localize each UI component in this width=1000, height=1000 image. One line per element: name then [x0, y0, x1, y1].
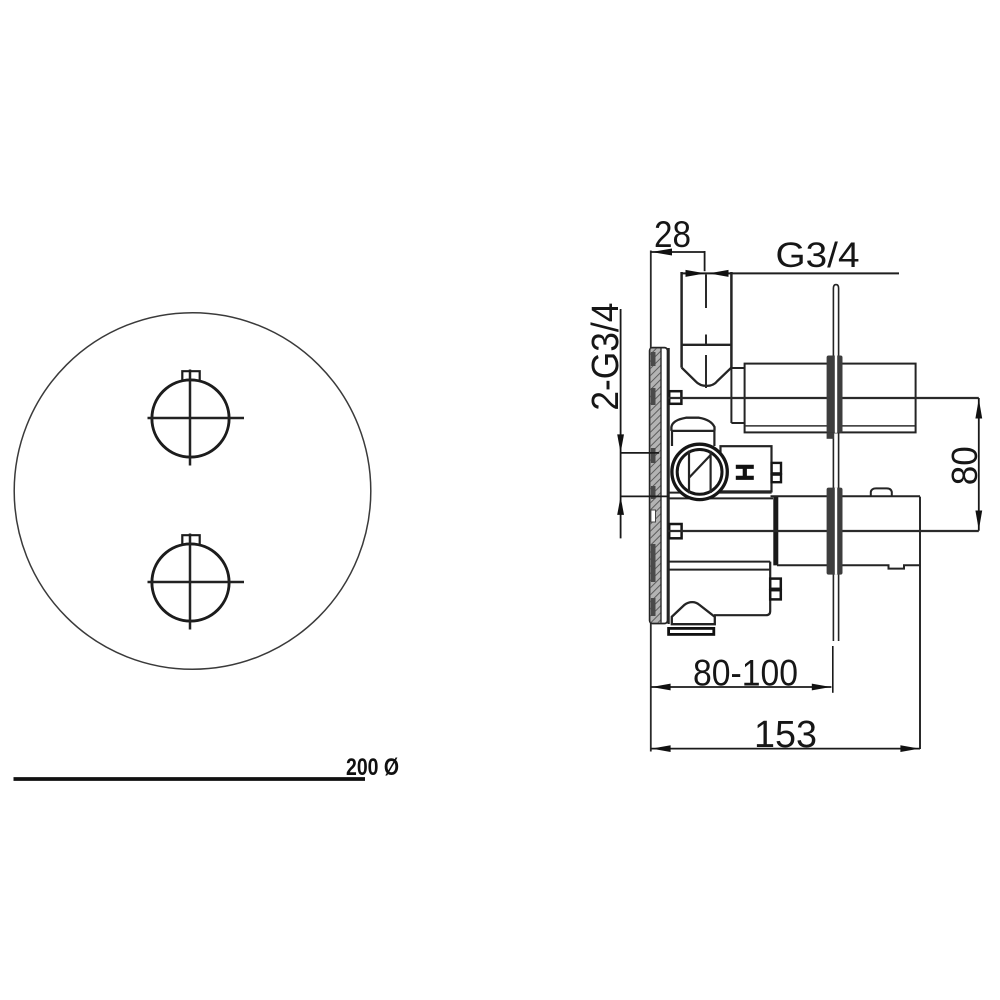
- bottom outlet cap: [672, 602, 715, 624]
- svg-text:200 Ø: 200 Ø: [346, 754, 399, 781]
- svg-text:153: 153: [754, 714, 817, 756]
- svg-text:2-G3/4: 2-G3/4: [585, 303, 627, 411]
- solenoid box: [721, 446, 772, 491]
- top knob index tab: [182, 371, 199, 381]
- svg-text:28: 28: [654, 214, 691, 255]
- dimension 153: [651, 745, 920, 752]
- label 200 dia: [346, 754, 399, 781]
- 2-G3/4 text: [585, 303, 627, 411]
- lower right block: [771, 488, 921, 749]
- bottom knob circle: [152, 544, 229, 621]
- H symbol: [736, 467, 754, 478]
- mid body lower lines: [669, 493, 773, 499]
- bottom knob crosshair: [148, 534, 245, 630]
- mounting plate: [650, 348, 668, 624]
- dimension 80: [975, 398, 982, 531]
- 153 text: [754, 714, 817, 756]
- diameter reference line 200: [14, 777, 366, 781]
- inlet pipe centerline: [705, 275, 707, 389]
- wall plate upper sleeve: [827, 356, 843, 439]
- dimension 80-100: [651, 646, 833, 693]
- dimension 28 text: [654, 214, 691, 255]
- valve circle: [672, 444, 727, 499]
- front plate circle: [14, 313, 371, 670]
- 80 text: [944, 446, 985, 485]
- top knob circle: [152, 380, 229, 457]
- inlet funnel taper: [682, 368, 732, 386]
- solenoid connector prongs: [772, 463, 781, 482]
- thermostat dome: [671, 418, 714, 446]
- bottom outlet flange bar: [669, 628, 714, 634]
- valve stem lines: [689, 451, 711, 494]
- cartridge connector prongs: [770, 579, 781, 600]
- G3/4 leader line: [681, 270, 900, 277]
- bottom knob index tab: [182, 535, 199, 545]
- top inlet pipe: [682, 272, 732, 368]
- wall plate lower sleeve: [827, 488, 843, 575]
- svg-text:80-100: 80-100: [693, 653, 798, 694]
- body left edge: [667, 348, 669, 624]
- svg-text:G3/4: G3/4: [776, 236, 860, 275]
- top knob crosshair: [148, 370, 245, 466]
- step block between pipe and top body: [731, 368, 744, 423]
- wall plate: [833, 285, 838, 641]
- mid body right thick edge: [773, 496, 778, 566]
- svg-text:80: 80: [944, 446, 985, 485]
- G3/4 text: [776, 236, 860, 275]
- top right outlet block: [745, 364, 916, 433]
- cartridge block: [668, 562, 770, 616]
- lower axis centerline: [651, 530, 979, 532]
- 80-100 text: [693, 653, 798, 694]
- upper axis centerline: [651, 397, 979, 399]
- long left extension line: [650, 251, 652, 752]
- dimension 28 line: [651, 249, 705, 272]
- dimension 2-G3/4: [617, 309, 669, 538]
- top screw lug: [669, 391, 681, 404]
- bottom screw lug: [669, 524, 681, 538]
